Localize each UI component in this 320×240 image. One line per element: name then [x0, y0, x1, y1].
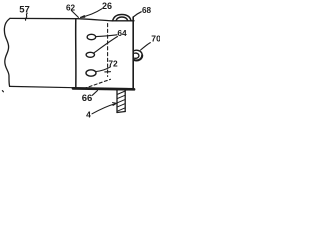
clip 70 inner curve: [134, 53, 139, 58]
left plate break line (wavy left edge): [4, 18, 10, 86]
post 4 left edge: [116, 91, 118, 113]
leader 26: [81, 9, 102, 18]
leader 68: [133, 12, 141, 17]
svg-text:72: 72: [108, 58, 118, 68]
post 4 right edge: [124, 91, 126, 112]
leader 72 tick on dashed line: [105, 71, 111, 73]
svg-text:64: 64: [117, 28, 127, 38]
svg-text:57: 57: [19, 5, 30, 16]
hidden flange edge (dashed diagonal): [84, 79, 111, 88]
post 4 bottom edge: [117, 112, 125, 113]
dome 68 inner arc: [116, 17, 128, 21]
leader 4 arrowhead: [113, 103, 117, 106]
leader 57 (squiggle tick): [25, 13, 27, 20]
hole 3 (lower): [86, 70, 96, 76]
leader 26 arrowhead: [81, 16, 85, 18]
svg-text:26: 26: [102, 1, 112, 11]
flange 66 (thick bottom edge of plate): [73, 87, 134, 91]
leader 70: [141, 43, 151, 50]
hole 2 (middle): [86, 52, 94, 57]
leader 4 (curved arrow): [92, 104, 116, 114]
clip 70 outer curve top: [134, 50, 142, 55]
leader 62: [72, 11, 79, 18]
hidden fold line (dashed vertical): [107, 24, 109, 77]
leader 64 to hole 2: [94, 37, 118, 53]
svg-text:66: 66: [82, 93, 93, 104]
svg-text:4: 4: [86, 109, 91, 119]
clip 70 outer curve bottom: [134, 55, 142, 60]
leader 64 to hole 1: [96, 35, 117, 37]
post 4 hatching: [117, 91, 125, 111]
vertical plate 26 right edge: [132, 17, 134, 88]
leader 66: [92, 91, 97, 96]
svg-text:68: 68: [142, 6, 152, 15]
dome 68 outer arc: [113, 15, 131, 21]
svg-text:70: 70: [151, 34, 160, 44]
hole 1 (upper): [87, 34, 96, 39]
svg-text:62: 62: [66, 3, 76, 12]
left plate top edge: [10, 18, 134, 20]
stray mark lower left: [2, 91, 3, 92]
leader 72 to hole 3: [96, 67, 110, 72]
left plate bottom edge: [10, 86, 74, 87]
vertical plate 26 left edge: [75, 19, 77, 88]
